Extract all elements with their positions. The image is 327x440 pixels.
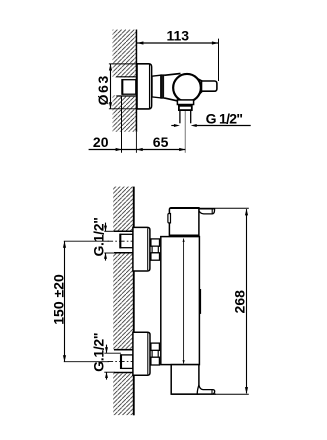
top line + 268 ext — [169, 207, 199, 209]
top inlet channel gap — [112, 231, 132, 253]
valve neck — [152, 75, 161, 98]
handle lever neck — [196, 78, 203, 98]
svg-text:113: 113 — [167, 28, 190, 44]
top G12 text — [91, 217, 107, 256]
bottom channel upper hatch line — [114, 349, 133, 351]
side tab on head block — [168, 214, 171, 223]
bottom G12 dim line upper — [106, 345, 108, 353]
channel upper line — [116, 76, 136, 78]
svg-text:G 1/2": G 1/2" — [206, 111, 243, 127]
G 1/2 right arrow — [191, 124, 197, 127]
arrow at wall face — [137, 148, 143, 151]
svg-text:65: 65 — [153, 134, 169, 150]
collar ring — [161, 75, 164, 98]
inner dim top arrow — [183, 238, 185, 242]
G 1/2 leader right segment — [196, 125, 251, 127]
svg-text:150 ±20: 150 ±20 — [51, 274, 67, 325]
pipe centerline — [184, 111, 186, 153]
G 1/2 left arrow — [174, 124, 180, 127]
in-wall fitting — [122, 79, 136, 95]
bottom wall flange — [133, 332, 150, 375]
svg-text:G.1/2": G.1/2" — [91, 333, 107, 372]
dim 150 bottom arrow — [63, 355, 66, 362]
dim 268 bottom arrow — [245, 387, 248, 394]
dim 268 top arrow — [245, 209, 248, 216]
arrow at pipe center — [179, 148, 185, 151]
bottom pipe dash centerline — [108, 361, 133, 363]
top G12 up arrow — [104, 253, 107, 259]
extension line from fitting to 20-dim — [121, 96, 123, 153]
bottom G12 text — [91, 333, 107, 372]
bottom G12 dim line lower — [106, 372, 108, 379]
bottom outlet bump — [197, 385, 215, 394]
dim 113 line — [137, 42, 219, 44]
bottom channel lower line / G12 ext — [104, 371, 114, 373]
dim 113 extension line — [218, 39, 220, 81]
dim 113 right arrow — [212, 41, 219, 44]
bottom G12 up arrow — [105, 372, 108, 378]
dim 113 left arrow — [137, 41, 144, 44]
dim 150 top arrow — [63, 241, 66, 248]
outlet pipe — [179, 110, 181, 123]
G 1/2 leader left segment — [171, 125, 175, 127]
top in-wall fitting — [120, 234, 133, 249]
top wall flange — [133, 227, 150, 271]
bottom G12 upper ext line — [104, 352, 121, 354]
bottom G12 down arrow — [105, 347, 108, 353]
knob circle — [173, 74, 201, 102]
body column — [161, 237, 200, 365]
wall pipe channel gap — [112, 77, 135, 95]
top hex nut — [151, 239, 160, 260]
bottom hex nut — [151, 343, 160, 365]
top G12 dim line lower — [105, 253, 107, 261]
svg-text:268: 268 — [231, 290, 247, 314]
top pipe dash centerline — [108, 240, 133, 242]
dim O63 top arrow — [109, 64, 112, 71]
right side clip — [199, 289, 201, 314]
outlet flange — [177, 100, 193, 105]
bottom line + 268 ext — [171, 393, 216, 395]
handle tip — [202, 81, 217, 91]
dim 150 ext top — [64, 240, 109, 242]
top channel lower line / G12 ext — [104, 252, 114, 254]
bottom block — [171, 365, 199, 395]
dim 20-65 line — [89, 149, 186, 151]
top channel upper line / G12 ext — [104, 230, 114, 232]
arrow at 20 left (outside) — [116, 148, 122, 151]
top G12 down arrow — [104, 226, 107, 232]
dim O63 line — [110, 64, 112, 109]
dim O63 bottom arrow — [109, 102, 112, 109]
svg-text:G.1/2": G.1/2" — [91, 217, 107, 256]
top G12 dim line upper — [105, 223, 107, 232]
outlet ring — [179, 106, 192, 110]
dim 150 text — [51, 274, 67, 325]
dim 150 ext bottom — [64, 361, 109, 363]
wall hatching front — [113, 187, 133, 416]
channel lower line — [116, 95, 136, 97]
svg-text:Ø63: Ø63 — [95, 74, 111, 105]
wall face extension to dim — [135, 132, 137, 153]
wall hatching — [113, 30, 136, 132]
top head block — [169, 208, 199, 235]
cone to knob — [164, 73, 179, 102]
dim 268 line — [246, 209, 248, 393]
dim 268 text — [231, 290, 247, 314]
inner dim bottom arrow — [183, 360, 185, 364]
wall face line front — [133, 187, 135, 416]
wall face line — [136, 30, 138, 132]
svg-text:20: 20 — [93, 134, 109, 150]
dim O63 extension lines — [109, 63, 137, 65]
bottom in-wall fitting — [121, 354, 133, 369]
bottom inlet channel gap — [112, 350, 132, 372]
inner dim line — [183, 239, 185, 364]
wall flange plate — [137, 64, 152, 109]
top outlet bump — [198, 209, 214, 214]
dim 150 line — [64, 241, 66, 361]
dim O63 text — [95, 74, 111, 105]
